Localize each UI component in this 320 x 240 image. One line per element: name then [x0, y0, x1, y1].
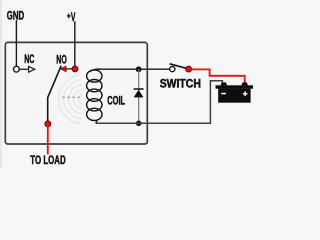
- field arrow ticks: [62, 97, 80, 98]
- battery BT1 top cap: [216, 85, 254, 88]
- NO contact red triangle: [60, 66, 66, 71]
- screen left edge line: [0, 0, 2, 168]
- diode D1 cathode bar: [134, 88, 144, 90]
- wire NO stub: [66, 68, 72, 70]
- NO terminal red dot: [72, 66, 78, 72]
- battery minus symbol: [221, 93, 226, 95]
- NC contact terminal circle: [14, 66, 20, 72]
- svg-text:COIL: COIL: [107, 95, 125, 108]
- svg-text:GND: GND: [7, 10, 24, 23]
- switch S1 terminal circle: [170, 67, 175, 72]
- junction node top: [136, 66, 142, 72]
- magnetic field arcs: [59, 75, 83, 124]
- coil L1 windings: [87, 69, 102, 123]
- diode D1 triangle: [134, 90, 144, 98]
- switch S1 terminal red dot: [186, 66, 192, 72]
- NC contact open triangle: [29, 66, 35, 72]
- svg-text:NC: NC: [24, 53, 35, 66]
- armature (common pole): [48, 66, 62, 122]
- wire +V lead: [74, 21, 76, 66]
- svg-text:NO: NO: [56, 53, 67, 66]
- wire bottom rail to battery negative: [96, 81, 223, 124]
- wire TO LOAD (red): [47, 124, 49, 154]
- wire GND lead: [15, 20, 17, 66]
- common terminal red dot: [45, 121, 51, 127]
- battery BT1 positive terminal post: [241, 82, 248, 85]
- battery BT1 negative terminal post: [221, 82, 228, 85]
- battery plus symbol: [243, 91, 248, 96]
- wire NC stub: [20, 68, 29, 70]
- svg-text:SWITCH: SWITCH: [160, 77, 201, 90]
- svg-text:TO LOAD: TO LOAD: [30, 154, 65, 167]
- wire battery positive (red): [192, 69, 245, 83]
- wire top rail (coil to switch): [98, 68, 170, 70]
- switch S1 lever: [170, 64, 186, 68]
- battery BT1 body: [218, 89, 250, 103]
- diode D1 wire: [138, 69, 140, 123]
- relay body box: [5, 42, 147, 144]
- junction node bottom: [136, 121, 142, 127]
